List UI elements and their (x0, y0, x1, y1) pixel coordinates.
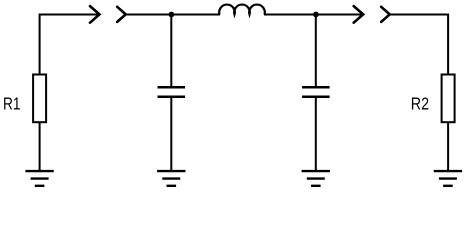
svg-text:R1: R1 (3, 94, 21, 114)
resistor R1 (33, 75, 46, 123)
wire (447, 122, 449, 170)
resistor R2 (442, 75, 455, 123)
ground (R2) (434, 171, 462, 186)
wire (126, 14, 220, 16)
arrow head (source port out) (90, 6, 100, 23)
wire (390, 15, 448, 75)
wire (170, 97, 172, 170)
port chevron (input) (117, 7, 126, 22)
wire (315, 97, 317, 170)
port chevron (load input) (381, 7, 390, 22)
wire (40, 15, 98, 75)
ground (R1) (25, 171, 53, 186)
wire (264, 14, 361, 16)
ground (C2) (302, 171, 330, 186)
arrow head (output port out) (354, 6, 364, 23)
capacitor C1 (158, 87, 186, 97)
capacitor C2 (302, 87, 330, 97)
wire (39, 122, 41, 170)
ground (C1) (157, 171, 185, 186)
svg-text:R2: R2 (411, 94, 429, 114)
wire (315, 15, 317, 88)
inductor L1 (219, 5, 265, 15)
node junction dot right (313, 12, 319, 18)
node junction dot left (169, 12, 175, 18)
wire (170, 15, 172, 88)
